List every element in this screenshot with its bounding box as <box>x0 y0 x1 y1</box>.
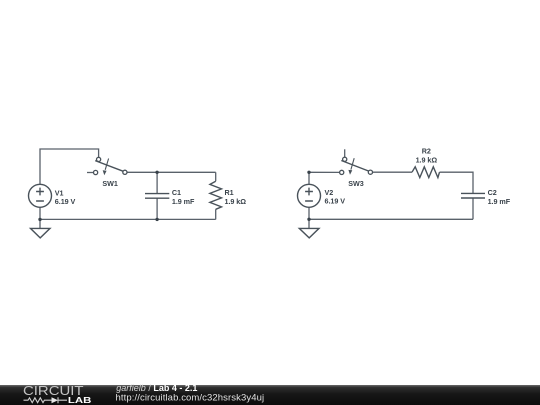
svg-text:6.19 V: 6.19 V <box>325 197 346 206</box>
svg-text:http://circuitlab.com/c32hsrsk: http://circuitlab.com/c32hsrsk3y4uj <box>116 393 265 404</box>
svg-text:LAB: LAB <box>68 396 92 405</box>
svg-text:R1: R1 <box>225 188 234 197</box>
svg-text:C2: C2 <box>488 188 497 197</box>
svg-text:1.9 kΩ: 1.9 kΩ <box>416 155 438 164</box>
svg-text:garfielb / Lab 4 - 2.1: garfielb / Lab 4 - 2.1 <box>116 383 197 393</box>
svg-text:SW1: SW1 <box>102 179 117 188</box>
svg-text:V2: V2 <box>325 188 334 197</box>
svg-text:SW3: SW3 <box>348 179 363 188</box>
svg-text:6.19 V: 6.19 V <box>55 197 76 206</box>
svg-text:C1: C1 <box>172 188 181 197</box>
svg-text:R2: R2 <box>422 147 431 156</box>
svg-text:1.9 mF: 1.9 mF <box>488 197 511 206</box>
svg-text:V1: V1 <box>55 188 64 197</box>
svg-text:1.9 kΩ: 1.9 kΩ <box>225 197 247 206</box>
svg-text:1.9 mF: 1.9 mF <box>172 197 195 206</box>
